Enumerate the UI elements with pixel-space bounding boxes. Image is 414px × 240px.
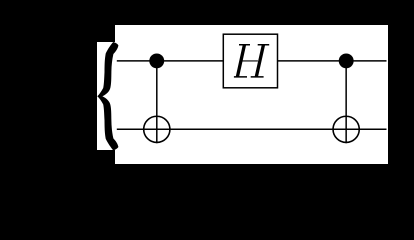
wire CNOT2 vertical <box>345 61 347 143</box>
brace white strip <box>97 42 116 150</box>
control dot 1 <box>149 53 164 68</box>
circuit white panel <box>115 25 388 164</box>
wire CNOT1 vertical <box>156 61 158 143</box>
gate H box <box>223 34 277 88</box>
gate H label <box>234 44 269 78</box>
target circle 1 <box>144 116 170 142</box>
bottom wire <box>117 128 387 130</box>
control dot 2 <box>339 53 354 68</box>
target circle 2 <box>333 116 359 142</box>
brace { <box>97 42 118 150</box>
top wire <box>117 60 387 62</box>
